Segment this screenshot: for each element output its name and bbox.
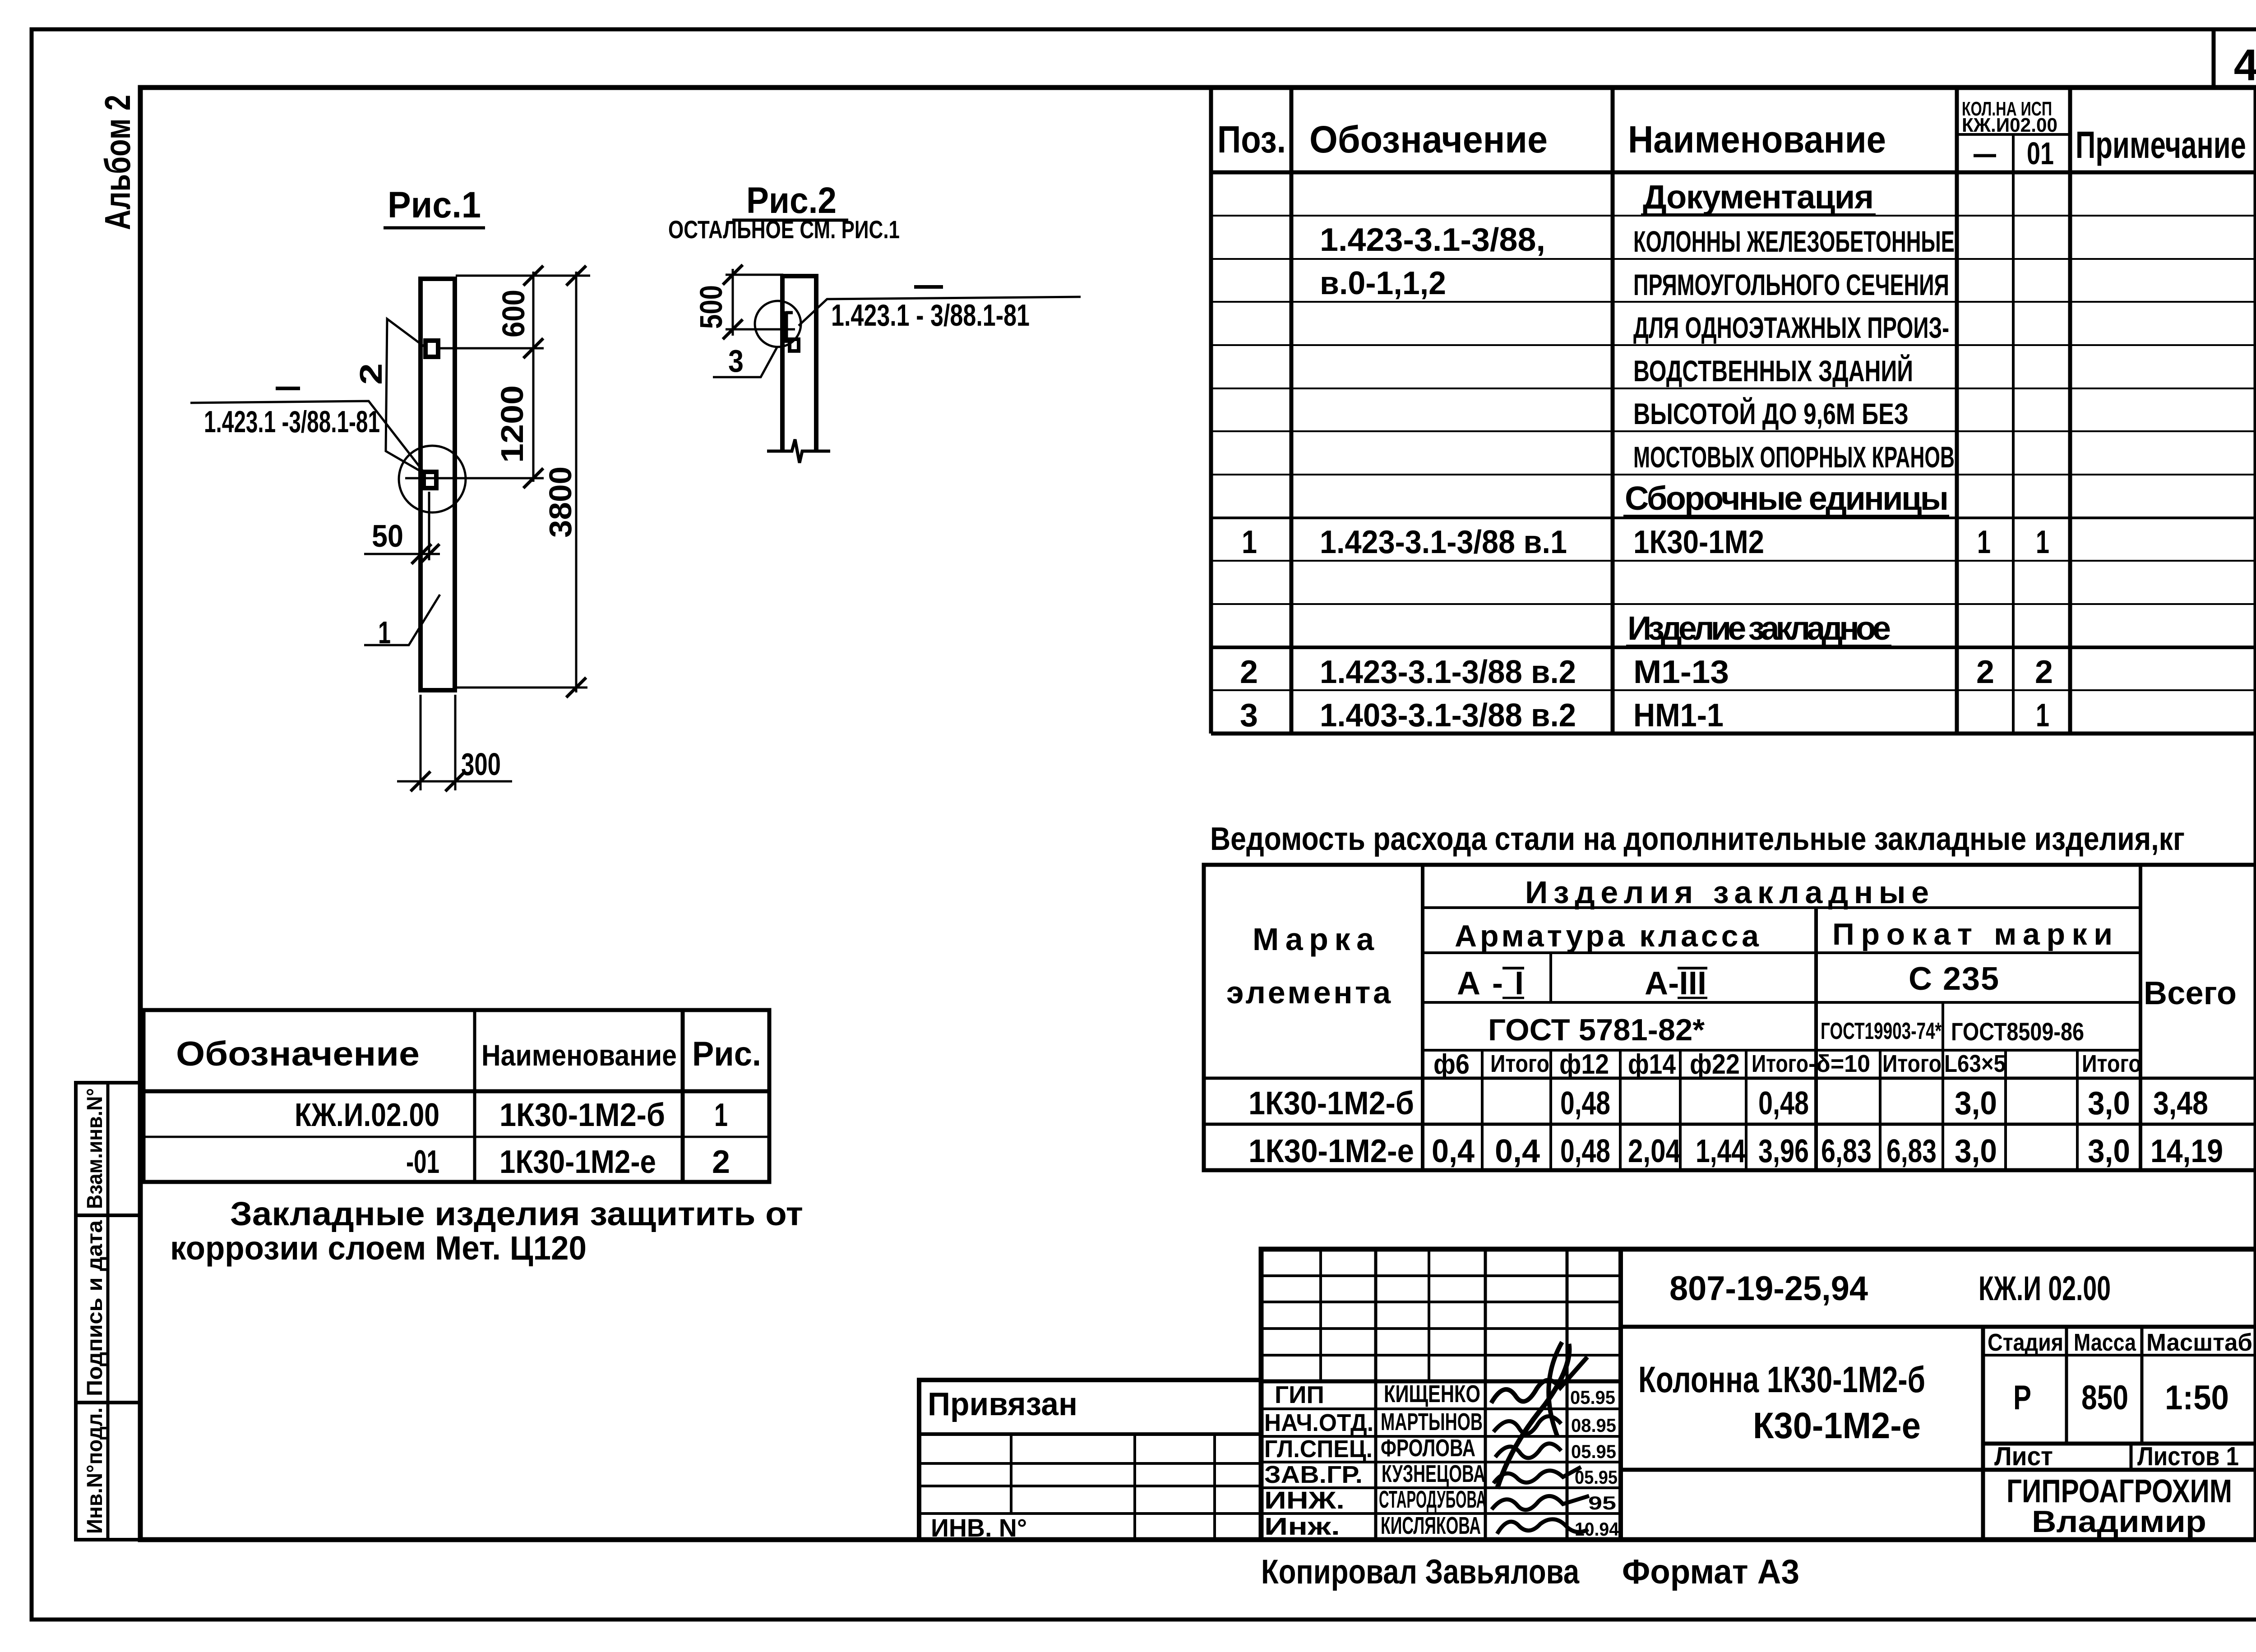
svg-text:Стадия: Стадия bbox=[1988, 1329, 2063, 1356]
title block name cell bbox=[1621, 1468, 2256, 1472]
fig1 dim line 3800 bbox=[575, 272, 578, 692]
svg-text:КОЛОННЫ ЖЕЛЕЗОБЕТОННЫЕ: КОЛОННЫ ЖЕЛЕЗОБЕТОННЫЕ bbox=[1633, 225, 1955, 258]
fig1 leader item2 flag bbox=[386, 319, 424, 473]
fig2 embed plate bbox=[784, 311, 788, 343]
svg-text:1К30-1М2-е: 1К30-1М2-е bbox=[499, 1144, 656, 1180]
svg-text:Привязан: Привязан bbox=[928, 1386, 1077, 1422]
steel table verticals minor bbox=[1549, 953, 1552, 1002]
svg-text:1: 1 bbox=[2036, 697, 2049, 734]
svg-text:ГЛ.СПЕЦ.: ГЛ.СПЕЦ. bbox=[1264, 1435, 1373, 1463]
svg-text:1.423.1 -3/88.1-81: 1.423.1 -3/88.1-81 bbox=[204, 405, 380, 439]
title block signature row lines bbox=[1261, 1407, 1621, 1410]
svg-text:0,4: 0,4 bbox=[1432, 1133, 1475, 1169]
svg-text:1.403-3.1-3/88 в.2: 1.403-3.1-3/88 в.2 bbox=[1320, 697, 1576, 734]
svg-text:Поз.: Поз. bbox=[1217, 118, 1286, 161]
fig1 extension line upper plate bbox=[438, 347, 544, 350]
title block revision grid verticals bbox=[1319, 1249, 1322, 1381]
svg-text:Формат А3: Формат А3 bbox=[1622, 1553, 1799, 1591]
fig2 detail circle bbox=[755, 301, 801, 347]
bottom-left table outer bbox=[143, 1010, 769, 1182]
svg-text:НАЧ.ОТД.: НАЧ.ОТД. bbox=[1264, 1409, 1373, 1436]
svg-text:2: 2 bbox=[353, 363, 388, 385]
svg-text:3,0: 3,0 bbox=[1955, 1133, 1997, 1169]
svg-text:А-III: А-III bbox=[1645, 965, 1706, 1001]
svg-text:1200: 1200 bbox=[495, 385, 530, 463]
spec table verticals bbox=[1209, 88, 1213, 734]
svg-text:-δ=10: -δ=10 bbox=[1808, 1050, 1870, 1077]
svg-text:95: 95 bbox=[1588, 1492, 1616, 1514]
svg-text:ВЫСОТОЙ ДО 9,6М БЕЗ: ВЫСОТОЙ ДО 9,6М БЕЗ bbox=[1633, 397, 1909, 430]
svg-text:К30-1М2-е: К30-1М2-е bbox=[1753, 1405, 1921, 1446]
svg-text:НМ1-1: НМ1-1 bbox=[1633, 697, 1724, 734]
svg-text:2: 2 bbox=[1240, 654, 1258, 690]
svg-text:2: 2 bbox=[1976, 654, 1994, 690]
svg-text:Итого: Итого bbox=[1882, 1050, 1942, 1077]
привязан box bbox=[919, 1380, 1261, 1540]
fig2 dim 500 extension bottom bbox=[726, 328, 795, 331]
signatures flourish bbox=[1491, 1357, 1587, 1403]
svg-text:СТАРОДУБОВА: СТАРОДУБОВА bbox=[1379, 1486, 1486, 1513]
svg-text:3,0: 3,0 bbox=[1955, 1085, 1997, 1121]
svg-text:Масштаб: Масштаб bbox=[2146, 1329, 2252, 1356]
svg-text:ф14: ф14 bbox=[1628, 1049, 1676, 1080]
svg-text:850: 850 bbox=[2081, 1379, 2128, 1417]
svg-text:КУЗНЕЦОВА: КУЗНЕЦОВА bbox=[1382, 1460, 1485, 1487]
svg-text:14,19: 14,19 bbox=[2150, 1133, 2223, 1169]
svg-text:Наименование: Наименование bbox=[1628, 118, 1886, 161]
fig1 detail circle bbox=[399, 446, 466, 512]
svg-text:ОСТАЛЬНОЕ СМ. РИС.1: ОСТАЛЬНОЕ СМ. РИС.1 bbox=[668, 215, 900, 244]
svg-text:3: 3 bbox=[728, 343, 744, 378]
fig1 embed plate lower bbox=[424, 472, 436, 488]
svg-text:2: 2 bbox=[2035, 654, 2053, 690]
svg-text:ДЛЯ ОДНОЭТАЖНЫХ ПРОИЗ-: ДЛЯ ОДНОЭТАЖНЫХ ПРОИЗ- bbox=[1633, 311, 1949, 344]
fig1 dim 50 line bbox=[364, 553, 440, 555]
spec header dash bbox=[1974, 154, 1996, 157]
svg-text:элемента: элемента bbox=[1226, 975, 1391, 1010]
fig1 dim 50 extension bbox=[428, 492, 430, 560]
title block doc number row bbox=[1621, 1325, 2256, 1329]
svg-text:ВОДСТВЕННЫХ ЗДАНИЙ: ВОДСТВЕННЫХ ЗДАНИЙ bbox=[1633, 354, 1913, 388]
svg-text:0,48: 0,48 bbox=[1560, 1085, 1610, 1121]
svg-text:3,0: 3,0 bbox=[2088, 1085, 2130, 1121]
svg-text:КИСЛЯКОВА: КИСЛЯКОВА bbox=[1381, 1512, 1481, 1539]
fig1 doc leader line bbox=[190, 401, 423, 471]
list row bbox=[1983, 1442, 2256, 1446]
title block outer bbox=[1261, 1249, 2256, 1540]
fig1 dim line 600-1200 bbox=[532, 272, 535, 482]
svg-text:М1-13: М1-13 bbox=[1633, 654, 1729, 690]
svg-text:6,83: 6,83 bbox=[1886, 1133, 1937, 1169]
svg-text:Изделия закладные: Изделия закладные bbox=[1525, 875, 1929, 910]
svg-text:1К30-1М2-б: 1К30-1М2-б bbox=[1248, 1085, 1414, 1121]
svg-text:1: 1 bbox=[2036, 524, 2049, 560]
svg-text:807-19-25,94: 807-19-25,94 bbox=[1669, 1269, 1868, 1308]
svg-text:Инж.: Инж. bbox=[1264, 1513, 1340, 1540]
fig1 embed plate upper bbox=[425, 341, 438, 357]
svg-text:2,04: 2,04 bbox=[1628, 1133, 1681, 1169]
svg-text:1: 1 bbox=[1977, 524, 1991, 560]
svg-text:Владимир: Владимир bbox=[2032, 1504, 2206, 1539]
svg-text:ЗАВ.ГР.: ЗАВ.ГР. bbox=[1264, 1461, 1363, 1488]
svg-text:Колонна 1К30-1М2-б: Колонна 1К30-1М2-б bbox=[1638, 1359, 1925, 1400]
svg-text:Лист: Лист bbox=[1994, 1442, 2053, 1471]
svg-text:3,48: 3,48 bbox=[2153, 1085, 2208, 1121]
svg-text:Итого: Итого bbox=[1490, 1050, 1549, 1077]
svg-text:1: 1 bbox=[714, 1097, 728, 1133]
svg-text:1К30-1М2-е: 1К30-1М2-е bbox=[1248, 1133, 1414, 1169]
page number box bbox=[2212, 29, 2216, 88]
svg-text:ГИП: ГИП bbox=[1275, 1381, 1324, 1408]
svg-text:1:50: 1:50 bbox=[2165, 1379, 2229, 1417]
bottom-left table verticals bbox=[473, 1010, 476, 1182]
svg-text:6,83: 6,83 bbox=[1821, 1133, 1872, 1169]
steel table outer bbox=[1204, 865, 2256, 1170]
svg-text:1,44: 1,44 bbox=[1696, 1133, 1746, 1169]
svg-text:1: 1 bbox=[378, 615, 391, 650]
svg-text:Масса: Масса bbox=[2074, 1329, 2136, 1356]
stadia massa masshtab header bbox=[2065, 1327, 2068, 1444]
svg-text:ф6: ф6 bbox=[1433, 1049, 1470, 1080]
svg-text:10.94: 10.94 bbox=[1575, 1518, 1619, 1540]
svg-text:Альбом 2: Альбом 2 bbox=[97, 95, 138, 230]
fig1 dim 300 line bbox=[397, 780, 512, 783]
svg-text:КЖ.И02.00: КЖ.И02.00 bbox=[1962, 114, 2057, 136]
svg-text:Наименование: Наименование bbox=[481, 1038, 677, 1072]
steel table verticals major bbox=[1421, 865, 1424, 1170]
svg-text:L63×5: L63×5 bbox=[1944, 1050, 2006, 1077]
svg-text:ПРЯМОУГОЛЬНОГО СЕЧЕНИЯ: ПРЯМОУГОЛЬНОГО СЕЧЕНИЯ bbox=[1633, 268, 1949, 301]
fig1 doc overbar bbox=[276, 387, 300, 390]
svg-text:4: 4 bbox=[2234, 40, 2256, 90]
svg-text:МОСТОВЫХ ОПОРНЫХ КРАНОВ: МОСТОВЫХ ОПОРНЫХ КРАНОВ bbox=[1633, 440, 1955, 474]
svg-text:Обозначение: Обозначение bbox=[176, 1035, 420, 1073]
svg-text:1.423-3.1-3/88 в.2: 1.423-3.1-3/88 в.2 bbox=[1320, 654, 1576, 690]
svg-text:Листов 1: Листов 1 bbox=[2137, 1442, 2239, 1471]
fig2 dim 500 extension top bbox=[726, 274, 783, 276]
fig2 column break line bbox=[767, 439, 830, 463]
steel table horizontals bbox=[1423, 906, 2140, 909]
svg-text:ГИПРОАГРОХИМ: ГИПРОАГРОХИМ bbox=[2006, 1473, 2232, 1509]
svg-text:2: 2 bbox=[712, 1144, 730, 1180]
svg-text:1: 1 bbox=[1242, 524, 1257, 560]
svg-text:КЖ.И 02.00: КЖ.И 02.00 bbox=[1979, 1269, 2111, 1308]
svg-text:Закладные изделия защитить от: Закладные изделия защитить от bbox=[230, 1195, 803, 1232]
svg-text:3,0: 3,0 bbox=[2088, 1133, 2130, 1169]
svg-text:05.95: 05.95 bbox=[1575, 1467, 1618, 1488]
fig2 dim line 500 bbox=[732, 269, 734, 336]
svg-text:С 235: С 235 bbox=[1909, 961, 1999, 997]
left stamp cells bbox=[76, 1083, 140, 1540]
svg-text:0,4: 0,4 bbox=[1495, 1133, 1540, 1169]
svg-text:Марка: Марка bbox=[1253, 922, 1374, 957]
title block revision grid horizontals bbox=[1261, 1274, 1621, 1277]
svg-text:05.95: 05.95 bbox=[1571, 1441, 1616, 1462]
svg-text:Обозначение: Обозначение bbox=[1309, 118, 1548, 161]
svg-text:500: 500 bbox=[693, 285, 729, 329]
svg-text:КИЩЕНКО: КИЩЕНКО bbox=[1384, 1380, 1480, 1407]
svg-text:1К30-1М2: 1К30-1М2 bbox=[1633, 524, 1764, 560]
svg-text:Инв.N°подл.: Инв.N°подл. bbox=[83, 1407, 107, 1534]
svg-text:Копировал Завьялова: Копировал Завьялова bbox=[1261, 1553, 1580, 1591]
svg-text:Ведомость расхода стали на доп: Ведомость расхода стали на дополнительны… bbox=[1210, 821, 2185, 857]
fig2 column outline bbox=[782, 276, 816, 451]
svg-text:05.95: 05.95 bbox=[1570, 1387, 1615, 1408]
fig1 extension line top bbox=[456, 275, 590, 277]
svg-text:ГОСТ8509-86: ГОСТ8509-86 bbox=[1951, 1017, 2084, 1046]
svg-text:Подпись и дата: Подпись и дата bbox=[83, 1220, 107, 1396]
svg-text:08.95: 08.95 bbox=[1571, 1415, 1616, 1436]
svg-text:ИНВ. N°: ИНВ. N° bbox=[931, 1514, 1027, 1542]
svg-text:3800: 3800 bbox=[543, 466, 578, 538]
svg-text:ФРОЛОВА: ФРОЛОВА bbox=[1381, 1435, 1475, 1462]
spec table header bbox=[1957, 133, 2070, 136]
fig1 dim 300 extensions bbox=[420, 695, 422, 790]
svg-text:МАРТЫНОВ: МАРТЫНОВ bbox=[1381, 1408, 1483, 1435]
svg-text:Взам.инв.N°: Взам.инв.N° bbox=[83, 1088, 107, 1209]
svg-text:Примечание: Примечание bbox=[2076, 124, 2246, 166]
svg-text:300: 300 bbox=[461, 747, 501, 782]
svg-text:1К30-1М2-б: 1К30-1М2-б bbox=[499, 1097, 665, 1133]
svg-text:Итого: Итого bbox=[1752, 1050, 1808, 1077]
fig2 doc overbar bbox=[914, 285, 943, 289]
fig1 extension line lower plate bbox=[405, 477, 544, 480]
svg-text:ф22: ф22 bbox=[1690, 1049, 1740, 1080]
svg-text:ИНЖ.: ИНЖ. bbox=[1264, 1487, 1345, 1514]
fig2 leader item3 bbox=[713, 347, 777, 377]
fig1 leader item1 bbox=[364, 595, 440, 645]
svg-text:Итого: Итого bbox=[2082, 1050, 2141, 1077]
svg-text:ГОСТ19903-74*: ГОСТ19903-74* bbox=[1821, 1018, 1942, 1044]
svg-text:Рис.1: Рис.1 bbox=[388, 185, 481, 226]
svg-text:600: 600 bbox=[496, 290, 531, 337]
svg-text:коррозии слоем Мет. Ц120: коррозии слоем Мет. Ц120 bbox=[170, 1229, 587, 1267]
svg-text:1.423-3.1-3/88,: 1.423-3.1-3/88, bbox=[1320, 222, 1545, 258]
svg-text:КЖ.И.02.00: КЖ.И.02.00 bbox=[295, 1097, 439, 1133]
svg-text:0,48: 0,48 bbox=[1758, 1085, 1809, 1121]
svg-text:ГОСТ 5781-82*: ГОСТ 5781-82* bbox=[1488, 1013, 1705, 1047]
svg-text:Р: Р bbox=[2013, 1379, 2031, 1417]
svg-text:Всего: Всего bbox=[2144, 975, 2237, 1011]
spec table row lines bbox=[1211, 215, 2256, 217]
svg-text:01: 01 bbox=[2027, 136, 2054, 171]
svg-text:1.423.1 - 3/88.1-81: 1.423.1 - 3/88.1-81 bbox=[831, 298, 1030, 332]
svg-text:-01: -01 bbox=[406, 1144, 439, 1180]
svg-text:Изделие закладное: Изделие закладное bbox=[1627, 609, 1891, 647]
fig1 extension line bottom bbox=[457, 687, 587, 689]
bottom-left table horizontals bbox=[143, 1089, 769, 1094]
svg-text:Рис.: Рис. bbox=[692, 1035, 761, 1073]
fig2 doc leader bbox=[799, 297, 1081, 326]
svg-text:1.423-3.1-3/88 в.1: 1.423-3.1-3/88 в.1 bbox=[1320, 524, 1567, 560]
svg-text:3,96: 3,96 bbox=[1758, 1133, 1809, 1169]
svg-text:50: 50 bbox=[372, 518, 403, 554]
svg-text:3: 3 bbox=[1240, 697, 1258, 734]
svg-text:в.0-1,1,2: в.0-1,1,2 bbox=[1320, 265, 1446, 301]
svg-text:ф12: ф12 bbox=[1559, 1049, 1609, 1080]
fig1 column outline bbox=[421, 279, 455, 690]
svg-text:0,48: 0,48 bbox=[1560, 1133, 1610, 1169]
svg-text:Сборочные единицы: Сборочные единицы bbox=[1625, 480, 1949, 517]
svg-text:Документация: Документация bbox=[1643, 178, 1874, 216]
